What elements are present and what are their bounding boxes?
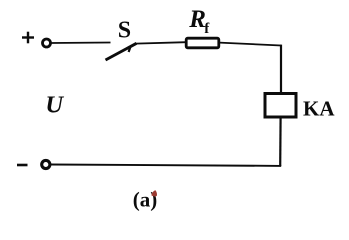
minus terminal polarity sign (17, 164, 28, 167)
switch S contact barb (129, 47, 131, 52)
svg-text:KA: KA (303, 97, 335, 121)
plus terminal polarity sign (22, 32, 34, 44)
relay coil KA body (265, 94, 296, 118)
wire from + terminal to switch (51, 42, 111, 45)
svg-text:(a): (a) (133, 188, 158, 212)
wire from switch to resistor Rf (136, 42, 187, 43)
wire from resistor to top-right corner (220, 43, 282, 46)
svg-text:U: U (45, 92, 64, 119)
node terminal circle (bottom, -) (42, 160, 50, 168)
switch S blade (106, 43, 137, 60)
bottom return wire (50, 165, 281, 166)
svg-text:S: S (118, 18, 131, 44)
wire from KA coil down (279, 117, 282, 166)
red scan artifact mark over caption (151, 190, 157, 196)
wire down right side to KA coil (280, 45, 282, 93)
resistor Rf body (186, 38, 219, 48)
svg-text:f: f (204, 21, 210, 37)
node terminal circle (top, +) (43, 39, 51, 47)
